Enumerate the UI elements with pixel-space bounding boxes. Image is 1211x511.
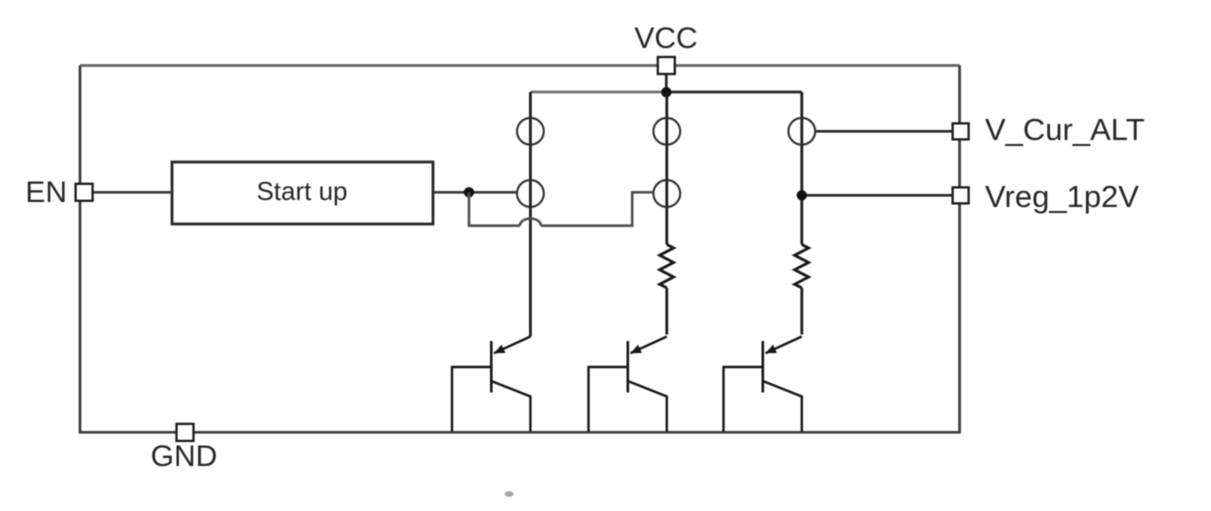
transistor Q1	[452, 337, 530, 432]
svg-text:EN: EN	[25, 176, 67, 209]
wire branch3 vertical	[800, 92, 803, 245]
wire VCC rail left segment	[530, 91, 666, 94]
node startup output junction	[464, 187, 474, 197]
wire branch3 to Vreg_1p2V	[802, 194, 952, 197]
wire EN to Start up	[93, 191, 172, 194]
artifact smudge	[505, 491, 514, 497]
chip boundary box	[80, 64, 960, 67]
transistor Q3	[724, 337, 802, 432]
port EN terminal	[76, 184, 93, 201]
node VCC junction	[661, 87, 671, 97]
current source I1 bottom circle	[517, 180, 544, 207]
port V_Cur_ALT terminal	[953, 123, 969, 139]
port GND terminal	[177, 424, 194, 441]
wire Start up output	[433, 191, 517, 194]
port Vreg_1p2V terminal	[953, 187, 969, 203]
resistor R1	[660, 245, 674, 288]
wire branch1 vertical	[529, 92, 532, 337]
block Start up	[172, 162, 433, 224]
port VCC terminal	[658, 57, 675, 74]
wire R1 to Q2	[665, 288, 668, 335]
svg-text:GND: GND	[151, 440, 218, 473]
resistor R2	[795, 245, 809, 288]
wire I3 to V_Cur_ALT	[815, 130, 951, 133]
wire VCC stub	[665, 74, 668, 92]
wire startup to I2 (down, right with hop, up)	[469, 192, 653, 225]
transistor Q2	[589, 337, 667, 432]
node Vreg junction	[797, 190, 807, 200]
svg-text:V_Cur_ALT: V_Cur_ALT	[985, 112, 1145, 147]
svg-text:Vreg_1p2V: Vreg_1p2V	[985, 179, 1139, 214]
svg-text:VCC: VCC	[634, 22, 697, 55]
wire branch2 vertical	[665, 92, 668, 245]
current source I2 top circle	[653, 118, 680, 145]
current source I2 bottom circle	[653, 180, 680, 207]
wire R2 to Q3	[800, 288, 803, 335]
svg-text:Start up: Start up	[256, 176, 347, 206]
wire VCC rail right segment	[666, 91, 802, 94]
current source I1 top circle	[517, 118, 544, 145]
wire hop over branch1	[520, 219, 541, 226]
current source I3 circle	[788, 118, 815, 145]
chip boundary left/bottom/right	[80, 66, 960, 433]
